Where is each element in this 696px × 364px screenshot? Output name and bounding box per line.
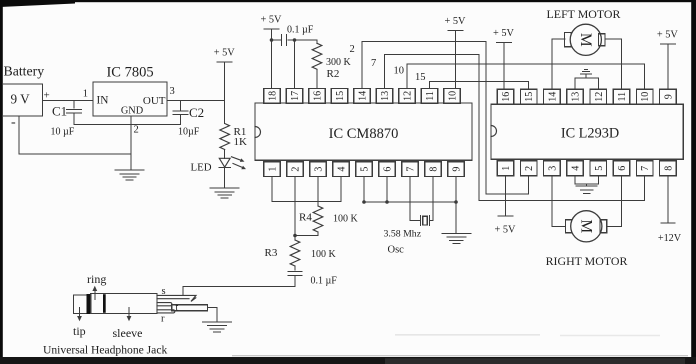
IC CM8870 pin 13 — [376, 89, 393, 104]
svg-text:13: 13 — [380, 91, 391, 101]
IC CM8870 pin 5 — [356, 162, 373, 177]
svg-text:+ 5V: + 5V — [261, 15, 283, 26]
svg-text:GND: GND — [121, 106, 144, 117]
jack contact t long bar — [172, 305, 208, 311]
jack barrel — [91, 294, 157, 314]
IC CM8870 pin 17 — [286, 89, 303, 104]
wire to R2 — [295, 39, 318, 41]
node junction pin18/cap — [270, 38, 274, 42]
capacitor C2 10uF — [173, 100, 204, 137]
power +5V at CM8870 pin 18 — [261, 15, 283, 89]
battery B1 9V — [3, 64, 50, 131]
ground below CM8870 pin9 — [442, 234, 471, 244]
resistor R4 100K — [295, 177, 359, 236]
svg-text:IC CM8870: IC CM8870 — [329, 126, 399, 142]
svg-text:18: 18 — [268, 91, 279, 101]
wire CM8870 pin1 to pin4 — [272, 177, 341, 202]
IC L293D pin 2 — [520, 161, 537, 176]
ground below LED — [210, 188, 239, 198]
power +5V at CM8870 pin 10 — [445, 16, 467, 89]
wire s contact up to cap — [182, 287, 184, 296]
ground at L293D pins 13-12 — [575, 70, 598, 90]
IC CM8870 pin 11 — [421, 89, 438, 104]
svg-text:10: 10 — [394, 66, 405, 77]
headphone jack J1 tip section — [74, 295, 88, 314]
svg-text:ring: ring — [87, 272, 106, 286]
svg-text:10 µF: 10 µF — [51, 127, 75, 138]
svg-text:4: 4 — [337, 167, 348, 172]
svg-text:10: 10 — [640, 92, 651, 102]
svg-text:M: M — [577, 33, 594, 47]
jack contact middle — [157, 303, 172, 306]
capacitor 0.1uF at CM8870 pin17 — [272, 25, 314, 46]
IC L293D pin 9 — [660, 89, 677, 104]
svg-text:7: 7 — [371, 58, 376, 69]
svg-text:r: r — [161, 314, 165, 325]
svg-text:15: 15 — [335, 91, 346, 101]
wire 7805 pin2 to ground — [130, 116, 132, 170]
svg-text:R2: R2 — [327, 68, 340, 80]
jack contact s — [157, 295, 196, 301]
jack contact r — [157, 310, 175, 313]
wire CM8870 pin2 down — [294, 177, 296, 236]
motor M1 left — [547, 7, 622, 89]
svg-text:13: 13 — [571, 92, 582, 102]
wire battery- loop to ground — [19, 116, 131, 154]
svg-text:4: 4 — [571, 166, 582, 171]
svg-text:9: 9 — [452, 167, 463, 172]
IC L293D pin 8 — [660, 161, 677, 176]
IC L293D pin 1 — [497, 161, 514, 176]
IC CM8870 pin 18 — [264, 89, 281, 104]
svg-text:14: 14 — [547, 92, 558, 102]
svg-text:16: 16 — [501, 92, 512, 102]
power +5V at L293D pin 9 — [657, 30, 679, 90]
capacitor 0.1uF below R3 — [288, 271, 337, 286]
IC L293D pin 12 — [590, 89, 607, 104]
svg-text:OUT: OUT — [143, 95, 166, 107]
wire CM8870 pin5 pin6 to pin9 ground rail — [363, 177, 365, 203]
IC CM8870 pin 12 — [399, 89, 416, 104]
IC L293D pin 5 — [590, 161, 607, 176]
svg-text:10µF: 10µF — [178, 127, 200, 138]
svg-text:3.58 Mhz: 3.58 Mhz — [384, 229, 422, 240]
resistor R2 300K — [312, 40, 351, 89]
wire C1 ground link to C2 — [74, 124, 181, 126]
svg-text:sleeve: sleeve — [113, 326, 143, 340]
svg-text:+ 5V: + 5V — [657, 30, 679, 41]
wire LED to ground — [224, 168, 226, 188]
svg-text:100 K: 100 K — [333, 214, 359, 225]
svg-text:LEFT MOTOR: LEFT MOTOR — [547, 7, 621, 21]
svg-text:15: 15 — [415, 72, 426, 83]
svg-text:16: 16 — [313, 91, 324, 101]
svg-text:7: 7 — [406, 167, 417, 172]
svg-text:3: 3 — [314, 167, 325, 172]
LED D1 — [191, 157, 247, 174]
svg-text:17: 17 — [290, 91, 301, 101]
svg-text:5: 5 — [360, 167, 371, 172]
wire battery+ to 7805 IN — [42, 99, 93, 101]
svg-text:14: 14 — [358, 91, 369, 101]
svg-text:+ 5V: + 5V — [495, 225, 517, 236]
node junction R4/R3 — [293, 234, 297, 238]
svg-text:LED: LED — [191, 162, 212, 174]
motor M2 right — [546, 176, 628, 268]
svg-text:t: t — [176, 303, 179, 314]
svg-text:2: 2 — [350, 44, 355, 55]
wire CM8870 pin12 to L293D pin10 (net 10) — [407, 64, 645, 90]
svg-text:+ 5V: + 5V — [445, 16, 467, 27]
wire CM8870 pin14 to L293D pin2 (net 2) — [362, 42, 529, 194]
IC L293D pin 10 — [636, 89, 653, 104]
svg-text:s: s — [162, 286, 166, 297]
op IC 7805 regulator U2 — [83, 65, 175, 136]
wire cap to headphone jack s contact — [183, 287, 295, 296]
IC CM8870 pin 3 — [310, 162, 327, 177]
+5V at L293D pin 1 (below) — [495, 176, 517, 236]
svg-text:3: 3 — [170, 86, 175, 97]
op IC CM8870 U1 body — [255, 103, 472, 160]
IC CM8870 pin 6 — [379, 162, 396, 177]
svg-text:11: 11 — [617, 92, 628, 102]
svg-text:M: M — [577, 219, 594, 233]
svg-text:+ 5V: + 5V — [214, 48, 236, 59]
IC CM8870 pin 9 — [448, 162, 465, 177]
jack black band thin — [103, 294, 106, 313]
svg-text:9 V: 9 V — [11, 92, 31, 107]
label sleeve with arrow — [113, 308, 143, 341]
ground below 7805 — [115, 170, 144, 180]
svg-text:6: 6 — [383, 167, 394, 172]
IC CM8870 pin 14 — [354, 89, 371, 104]
svg-text:R3: R3 — [265, 247, 278, 259]
svg-text:IC 7805: IC 7805 — [106, 65, 153, 81]
svg-text:5: 5 — [594, 166, 605, 171]
svg-text:6: 6 — [617, 166, 628, 171]
svg-text:C2: C2 — [189, 105, 204, 120]
IC L293D pin 15 — [520, 89, 537, 104]
IC CM8870 pin 15 — [331, 89, 348, 104]
wire CM8870 pin13 to L293D pin7 (net 7) — [385, 55, 645, 201]
IC L293D pin 14 — [544, 89, 561, 104]
IC CM8870 pin 4 — [333, 162, 350, 177]
wire t bar to ground — [208, 308, 218, 322]
IC L293D pin 16 — [497, 89, 514, 104]
crystal X1 3.58 MHz at pins 7-8 — [384, 177, 434, 256]
svg-text:R4: R4 — [299, 212, 312, 224]
svg-text:9: 9 — [663, 94, 674, 99]
svg-text:C1: C1 — [52, 104, 67, 119]
resistor R3 100K — [265, 236, 337, 270]
svg-text:8: 8 — [663, 166, 674, 171]
svg-text:2: 2 — [524, 166, 535, 171]
wire CM8870 pin11 to L293D pin15 (net 15) — [430, 81, 529, 89]
capacitor C1 10uF — [51, 100, 82, 137]
IC CM8870 pin 8 — [425, 162, 442, 177]
resistor R1 1K — [220, 100, 247, 158]
svg-text:100 K: 100 K — [311, 249, 337, 260]
IC CM8870 pin 16 — [309, 89, 326, 104]
svg-text:1K: 1K — [234, 136, 248, 148]
op IC L293D U3 body — [491, 104, 683, 159]
svg-text:12: 12 — [594, 92, 605, 102]
node junction cap/pin17 — [293, 38, 297, 42]
svg-text:RIGHT MOTOR: RIGHT MOTOR — [546, 254, 628, 268]
node junction pin6 — [385, 200, 389, 204]
node junction pin5 — [362, 200, 366, 204]
svg-text:Universal Headphone Jack: Universal Headphone Jack — [43, 344, 167, 357]
wire CM8870 pin9 to ground — [455, 177, 457, 234]
svg-text:+: + — [44, 90, 50, 102]
svg-text:3: 3 — [547, 166, 558, 171]
svg-text:+ 5V: + 5V — [493, 28, 515, 39]
svg-text:10: 10 — [448, 91, 459, 101]
svg-text:+12V: +12V — [658, 233, 682, 244]
svg-text:IN: IN — [97, 95, 109, 107]
svg-text:15: 15 — [524, 92, 535, 102]
svg-text:2: 2 — [134, 125, 139, 136]
IC L293D pin 6 — [613, 161, 630, 176]
IC CM8870 pin 2 — [287, 162, 304, 177]
ground at L293D pins 4-5 — [575, 176, 598, 194]
IC CM8870 pin 7 — [402, 162, 419, 177]
IC L293D pin 11 — [613, 89, 630, 104]
jack black band thick — [87, 294, 91, 314]
label tip with arrow — [73, 308, 86, 339]
wire 7805 OUT to +5V node — [167, 99, 225, 101]
IC CM8870 pin 10 — [444, 89, 461, 104]
label ring with arrow — [87, 272, 106, 300]
svg-text:1: 1 — [501, 166, 512, 171]
IC L293D pin 4 — [567, 161, 584, 176]
power +12V at L293D pin 8 — [658, 176, 682, 244]
svg-text:-: - — [11, 115, 16, 130]
power +5V at L293D pin 16 — [493, 28, 515, 89]
power +5V node above R1 — [214, 48, 236, 101]
IC L293D pin 13 — [567, 89, 584, 104]
svg-text:8: 8 — [429, 167, 440, 172]
svg-text:tip: tip — [73, 324, 86, 338]
svg-text:2: 2 — [291, 167, 302, 172]
svg-text:7: 7 — [640, 166, 651, 171]
svg-text:1: 1 — [268, 167, 279, 172]
svg-text:0.1 µF: 0.1 µF — [311, 276, 338, 287]
svg-text:11: 11 — [425, 91, 436, 101]
svg-text:Battery: Battery — [4, 64, 45, 79]
svg-text:1: 1 — [83, 89, 88, 100]
wire CM8870 pin17 up — [294, 40, 296, 89]
ground below jack — [203, 322, 232, 332]
IC L293D pin 7 — [636, 161, 653, 176]
IC L293D pin 3 — [544, 161, 561, 176]
IC CM8870 pin 1 — [264, 162, 281, 177]
node junction pin9 rail — [454, 200, 458, 204]
svg-text:12: 12 — [403, 91, 414, 101]
svg-text:IC L293D: IC L293D — [561, 126, 619, 142]
svg-text:300 K: 300 K — [326, 57, 352, 68]
svg-text:Osc: Osc — [388, 245, 405, 256]
svg-text:0.1 µF: 0.1 µF — [287, 25, 314, 36]
